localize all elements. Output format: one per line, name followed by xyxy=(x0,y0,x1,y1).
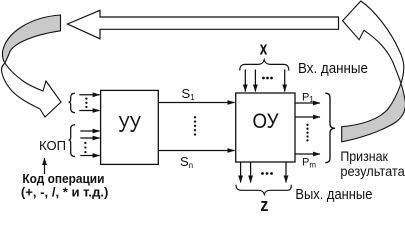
brace result flags xyxy=(325,93,335,162)
wire Sn xyxy=(158,150,234,152)
svg-text:(+, -, /, * и т.д.): (+, -, /, * и т.д.) xyxy=(21,185,109,200)
left curved feedback arrow (gray tail, twisted ribbon, white head) xyxy=(1,15,61,117)
svg-text:ОУ: ОУ xyxy=(253,109,279,133)
dotted column between S wires xyxy=(194,116,196,136)
svg-text:Вх. данные: Вх. данные xyxy=(298,60,368,77)
wire zn output xyxy=(285,163,287,183)
svg-text:Pm: Pm xyxy=(302,157,316,170)
wire xn input xyxy=(284,70,286,92)
dotted column between P arrows xyxy=(306,124,308,142)
wire x1 input xyxy=(244,70,246,92)
big top arrow pointing left xyxy=(68,10,339,39)
svg-text:x: x xyxy=(260,39,268,59)
wire S1 xyxy=(158,102,234,104)
wire UU input 1 (instruction field) xyxy=(79,94,99,96)
wire KOP bit 1 xyxy=(80,130,99,132)
svg-text:результата: результата xyxy=(340,163,405,179)
wire P1 result flag xyxy=(295,102,320,104)
dotted column lower group xyxy=(84,142,86,154)
wire Pm result flag xyxy=(295,153,320,155)
right curved feedback arrow (white head, twisted ribbon, gray tail) xyxy=(342,1,405,142)
wire KOP bit 2 xyxy=(80,137,99,139)
svg-text:КОП: КОП xyxy=(39,139,66,153)
wire P2 result flag xyxy=(295,116,320,118)
svg-text:z: z xyxy=(260,195,268,211)
ellipsis between x arrows xyxy=(262,77,273,80)
ellipsis between z arrows xyxy=(261,172,273,175)
brace upper input group xyxy=(69,93,75,112)
brace KOP group xyxy=(69,125,75,157)
box OU (operational unit) xyxy=(236,93,295,162)
wire z1 output xyxy=(240,163,242,183)
wire KOP bit last xyxy=(80,155,99,157)
svg-text:Sn: Sn xyxy=(180,154,193,170)
dotted column upper group xyxy=(85,97,87,108)
svg-text:P1: P1 xyxy=(302,91,314,104)
wire z2 output xyxy=(250,163,252,183)
svg-text:Вых. данные: Вых. данные xyxy=(295,186,372,203)
overbrace x xyxy=(240,60,289,71)
svg-text:S1: S1 xyxy=(182,86,196,102)
underbrace z xyxy=(236,185,291,195)
svg-text:УУ: УУ xyxy=(118,111,141,137)
svg-text:Признак: Признак xyxy=(340,148,388,164)
wire x2 input xyxy=(254,70,256,92)
wire UU input k xyxy=(79,110,99,112)
box UU (control unit) xyxy=(101,90,159,164)
arrow up to KOP xyxy=(44,158,46,174)
